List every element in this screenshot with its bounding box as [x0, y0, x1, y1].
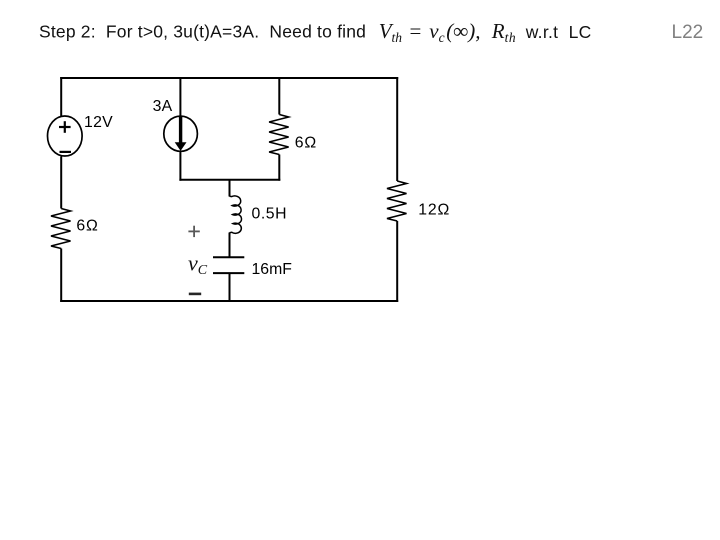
svg-text:w.r.t LC: w.r.t LC	[525, 22, 592, 42]
svg-text:=: =	[410, 19, 422, 43]
svg-text:L22: L22	[672, 22, 704, 43]
svg-text:(∞),: (∞),	[446, 19, 480, 43]
svg-text:6Ω: 6Ω	[76, 218, 98, 235]
svg-text:16mF: 16mF	[252, 261, 293, 278]
svg-text:3A: 3A	[153, 98, 173, 115]
svg-text:Step 2: For t>0, 3u(t)A=3A.: Step 2: For t>0, 3u(t)A=3A. Need to find	[39, 22, 366, 42]
svg-text:0.5H: 0.5H	[252, 206, 288, 223]
svg-text:vC: vC	[188, 250, 208, 278]
svg-text:6Ω: 6Ω	[295, 135, 317, 152]
svg-text:12V: 12V	[84, 114, 113, 131]
svg-text:vc: vc	[429, 19, 444, 45]
svg-text:12Ω: 12Ω	[418, 202, 450, 219]
svg-text:Vth: Vth	[379, 19, 403, 45]
svg-text:Rth: Rth	[491, 19, 516, 45]
